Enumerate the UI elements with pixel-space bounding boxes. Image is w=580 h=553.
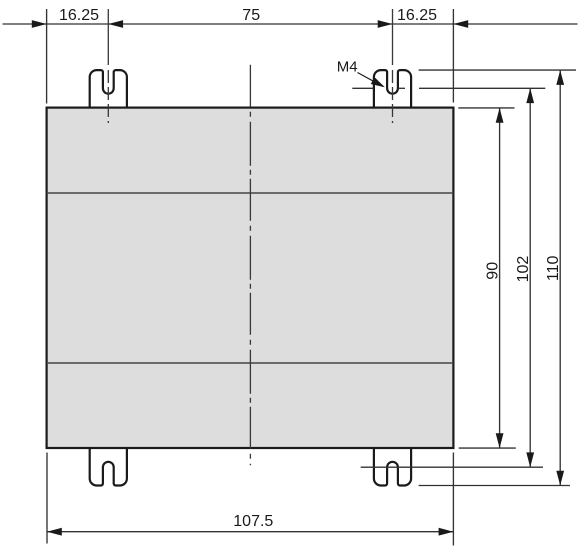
svg-text:75: 75 bbox=[242, 7, 260, 24]
svg-text:90: 90 bbox=[484, 262, 501, 280]
svg-text:M4: M4 bbox=[337, 58, 358, 75]
svg-text:110: 110 bbox=[545, 255, 562, 281]
svg-text:102: 102 bbox=[515, 256, 532, 283]
svg-text:16.25: 16.25 bbox=[59, 7, 99, 24]
svg-text:16.25: 16.25 bbox=[397, 7, 437, 24]
svg-text:107.5: 107.5 bbox=[233, 513, 273, 530]
